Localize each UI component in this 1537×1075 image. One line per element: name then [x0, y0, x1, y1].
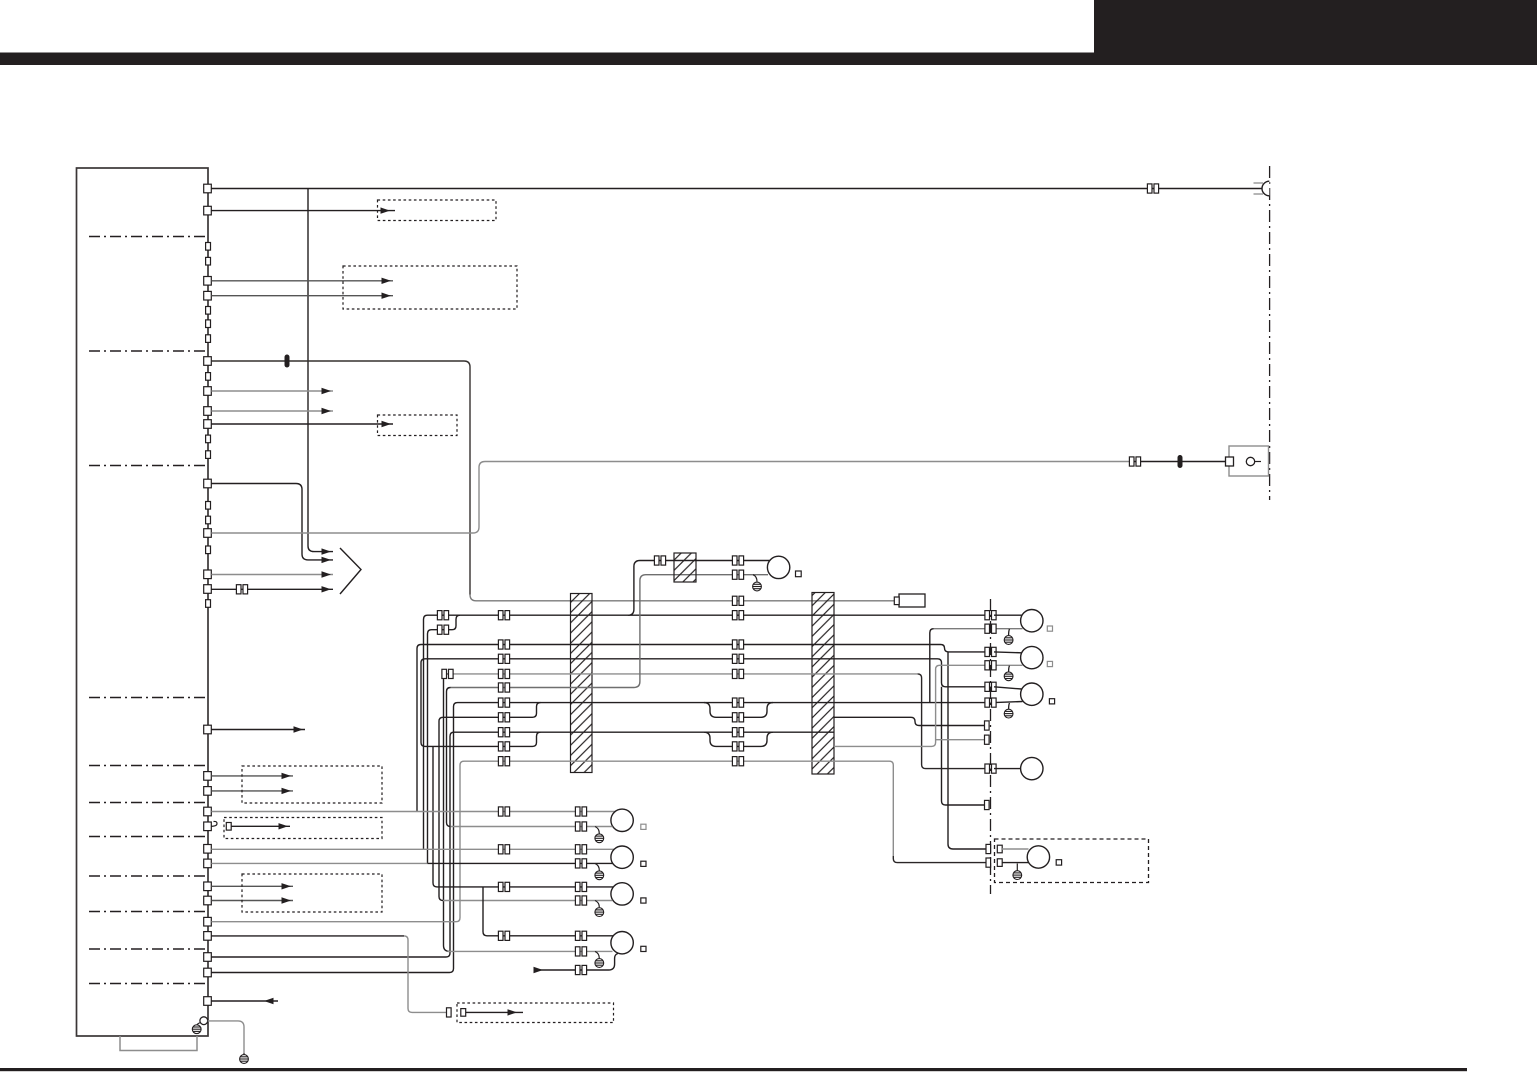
L2 ground stem — [595, 863, 599, 870]
licence lamp circle — [1027, 846, 1049, 868]
lamp3 lower wire — [994, 702, 1023, 703]
lamp4 circle — [1021, 757, 1043, 779]
pin 21 — [204, 896, 212, 905]
wire row F to headlamp low — [451, 575, 769, 688]
L4 ground stem — [595, 951, 599, 958]
L1 ground symbol — [595, 834, 604, 843]
inline connector on lighter feed — [1129, 457, 1140, 466]
wire pin6 — [211, 390, 333, 392]
wire from box5 pin — [231, 825, 290, 827]
label box 4 — [242, 766, 382, 803]
connector pair L2 bottom x581 — [575, 859, 586, 868]
cigarette lighter box — [1229, 446, 1269, 476]
connector pair row K x738 — [732, 757, 743, 766]
wire row J mid segment — [704, 732, 773, 746]
arrow pin8 wire — [382, 421, 392, 427]
connector pair row H x738 — [732, 713, 743, 722]
lamp3 ground stem — [1008, 703, 1011, 709]
pin 4 — [204, 291, 212, 300]
lamp1 connector pair — [985, 611, 996, 620]
pin 13 — [204, 725, 212, 734]
pin stub a1 — [206, 243, 211, 251]
firewall grommet bar 1 — [571, 594, 593, 773]
connector pair L4 top x581 — [575, 931, 586, 940]
lamp2 upper wire — [994, 651, 1022, 654]
connector pair L3 top x504 — [498, 882, 509, 891]
pin 6 — [204, 387, 212, 396]
header title block — [1094, 0, 1537, 53]
pin stub b2 — [206, 516, 211, 524]
lamp4 connector pair — [985, 764, 996, 773]
wire row I — [454, 731, 834, 733]
body ground symbol — [192, 1025, 201, 1034]
pin 10 — [204, 529, 212, 538]
connector divider C6 — [89, 802, 208, 804]
licence lamp lower pin at line — [986, 858, 991, 867]
connector pair L1 bottom x581 — [575, 822, 586, 831]
headlamp ground symbol — [753, 582, 762, 591]
connector divider C1 — [89, 236, 208, 238]
branch row G up to stop lamp ground row — [930, 629, 934, 703]
wire pin20 — [211, 885, 293, 887]
arrow on turn feed — [534, 967, 544, 973]
wire row J right segment to lamp2 ground row — [834, 665, 991, 746]
lighter element tick — [1255, 461, 1261, 463]
label box 3 — [378, 415, 458, 436]
label box 6 — [242, 874, 382, 912]
L4 ground symbol — [595, 959, 604, 968]
connector pair row I x504 — [498, 728, 509, 737]
splice on lighter feed — [1178, 455, 1183, 468]
row D lower branch to marker pin — [942, 687, 986, 805]
box7 pin inside — [461, 1009, 466, 1017]
junction block J/B — [77, 168, 209, 1036]
wire pin3 — [211, 280, 393, 282]
L2 square tag — [641, 861, 646, 866]
relay box pin — [894, 597, 899, 605]
L4 square tag — [641, 946, 646, 951]
lamp2 connector pair lower — [985, 661, 996, 670]
wire pin21 — [211, 900, 293, 902]
pin stub a6 — [206, 373, 211, 381]
bundle vertical v11 — [211, 703, 457, 973]
pin 25 — [204, 968, 212, 977]
turn feed arrow wire to L4 — [534, 954, 618, 971]
pin 16 — [204, 807, 212, 816]
connector pair headlamp x738 top — [732, 556, 743, 565]
connector pair row C x504 — [498, 640, 509, 649]
connector pair row A x504 — [498, 611, 509, 620]
lamp2 ground stem — [1008, 666, 1011, 672]
pin stub a8 — [206, 451, 211, 459]
connector pair row K x504 — [498, 757, 509, 766]
connector pair L4 top x504 — [498, 931, 509, 940]
connector divider C2 — [89, 350, 208, 352]
bottom rule — [0, 1068, 1467, 1071]
wire row C — [421, 645, 991, 652]
lamp2 lower wire — [994, 664, 1023, 666]
connector pair L1 top x581 — [575, 807, 586, 816]
lamp L4 circle — [611, 932, 633, 954]
lamp2 connector pair — [985, 647, 996, 656]
arrow pin2 wire — [381, 207, 391, 213]
connector divider C5 — [89, 765, 208, 767]
wire row E — [448, 673, 918, 675]
lamp3 square tag — [1049, 699, 1054, 704]
lamp L1 lower wire — [451, 826, 613, 828]
connector divider C3 — [89, 465, 208, 467]
connector pair L4 bottom x581 — [575, 947, 586, 956]
connector pair L2 top x581 — [575, 845, 586, 854]
pin 14 — [204, 772, 212, 781]
marker half pin 2 — [985, 735, 990, 744]
wire row H right jog to pin — [834, 717, 985, 725]
headlamp ground stem — [753, 575, 757, 582]
arrow pin14 wire — [282, 773, 292, 779]
licence lamp lower pin inside — [997, 859, 1002, 867]
connector divider C8 — [89, 875, 208, 877]
lamp L1 circle — [611, 809, 633, 831]
arrow box5 wire — [279, 823, 289, 829]
pin 11 — [204, 570, 212, 579]
pin stub b3 — [206, 546, 211, 554]
arrow pin6 wire — [322, 388, 332, 394]
rear harness dash-dot line — [990, 599, 992, 894]
pin stub b1 — [206, 502, 211, 510]
connector pair row C x738 — [732, 640, 743, 649]
bundle vertical v2 — [417, 645, 421, 812]
pin 15 — [204, 787, 212, 796]
wire row D — [425, 659, 991, 687]
lamp3 circle — [1021, 683, 1043, 705]
licence lamp upper pin inside — [997, 845, 1002, 853]
horn stub lower — [1254, 193, 1264, 195]
lamp1 feed wire — [994, 614, 1022, 616]
arrow pin20 wire — [282, 883, 292, 889]
bundle vertical v13 — [444, 674, 450, 952]
lamp1 ground stem — [1008, 629, 1011, 635]
arrow on branch wire — [322, 548, 332, 554]
wire pin10 to cigarette lighter feed — [211, 462, 1131, 534]
lamp3 connector pair lower — [985, 698, 996, 707]
lamp1 square tag — [1047, 626, 1052, 631]
connector pair row G x504 — [498, 698, 509, 707]
label box 5 — [224, 818, 382, 839]
wire branch to chevron from pin1 — [308, 189, 333, 552]
pin 17 — [204, 822, 212, 831]
connector pair headlamp feed — [654, 556, 665, 565]
marker half pin 3 — [985, 800, 990, 809]
pin stub a5 — [206, 335, 211, 343]
wire pin11 to chevron — [211, 574, 333, 576]
connector pair headlamp x738 bottom — [732, 570, 743, 579]
horn stub upper — [1254, 182, 1264, 184]
tail branch vertical to rear lamp — [948, 652, 986, 849]
tail feed wire pin23 to licence box — [211, 935, 404, 937]
lamp2 ground symbol — [1004, 672, 1013, 681]
wire row G — [458, 702, 991, 704]
L2 ground symbol — [595, 871, 604, 880]
lamp L2 circle — [611, 846, 633, 868]
wire pin5 to relay box via firewall — [211, 361, 470, 595]
arrow pin7 wire — [322, 408, 332, 414]
lamp4 wire — [994, 768, 1021, 770]
connector pair L2 top x504 — [498, 845, 509, 854]
wire pin8 — [211, 423, 393, 425]
bundle vertical v7 — [211, 732, 454, 957]
connector pair row E x504 — [498, 669, 509, 678]
bundle vertical v5 — [433, 746, 437, 887]
connector pair row B x443 — [437, 625, 448, 634]
wire pin13 — [211, 729, 305, 731]
firewall grommet bar 2 — [812, 593, 834, 775]
connector divider C4 — [89, 697, 208, 699]
branch marker pin from row J vertical — [936, 739, 985, 741]
lamp L3 lower wire — [443, 900, 613, 902]
lamp L2 lower wire — [211, 862, 427, 864]
licence lamp lower wire — [1002, 862, 1029, 864]
headlamp high feed wire — [628, 561, 770, 616]
lamp L3 circle — [611, 883, 633, 905]
wire row A tail feed — [428, 614, 991, 616]
connector divider C10 — [89, 948, 208, 950]
chassis ground stem — [243, 1053, 245, 1055]
pin stub b4 — [206, 600, 211, 608]
pin 9 — [204, 479, 212, 488]
connector pair row H x504 — [498, 713, 509, 722]
connector pair L3 top x581 — [575, 882, 586, 891]
pin 12 — [204, 585, 212, 594]
wire row H mid segment — [704, 703, 773, 718]
arrow pin15 wire — [282, 788, 292, 794]
lighter element circle — [1246, 457, 1254, 465]
bundle vertical v3 — [424, 615, 428, 849]
lamp3 ground symbol — [1004, 709, 1013, 718]
body centreline dash-dot (top right) — [1269, 166, 1271, 500]
arrow pin9 wire — [322, 557, 332, 563]
L3 square tag — [641, 898, 646, 903]
bundle vertical v9 — [421, 659, 425, 747]
wire row B — [432, 615, 461, 630]
connector pair L3 bottom x581 — [575, 896, 586, 905]
splice on pin5 wire — [285, 355, 290, 368]
connector pair row A x738 — [732, 611, 743, 620]
lamp1 lower wire — [994, 628, 1023, 630]
inline connector on bulb feed — [1147, 184, 1158, 193]
lamp2 circle — [1021, 646, 1043, 668]
connector divider C7 — [89, 836, 208, 838]
connector pair row G x738 — [732, 698, 743, 707]
licence label box — [995, 839, 1149, 883]
chassis ground symbol — [240, 1055, 249, 1064]
lamp row L4 top — [487, 935, 618, 937]
headlamp square tag — [796, 571, 802, 577]
bundle vertical v10 — [439, 717, 443, 900]
L1 square tag — [641, 824, 646, 829]
pin stub a2 — [206, 257, 211, 265]
turn lamp row L2 top — [211, 848, 618, 850]
connector pair row J x504 — [498, 742, 509, 751]
wire pin14 — [211, 775, 293, 777]
label box 7 — [457, 1003, 614, 1023]
turn lamp row L1 top — [211, 811, 618, 813]
connector pair row D x504 — [498, 654, 509, 663]
box7 pin outside — [447, 1008, 452, 1017]
connector pair row feed x738 — [732, 596, 743, 605]
wire pin1 to headlamp bulb — [211, 188, 1261, 190]
arrow pin26 wire (incoming) — [264, 998, 274, 1004]
pin 7 — [204, 407, 212, 416]
pin 26 — [204, 997, 212, 1006]
chevron off-page connector — [340, 548, 361, 594]
connector pair row I x738 — [732, 728, 743, 737]
wire screw to chassis ground — [208, 1021, 244, 1053]
licence lamp upper pin at line — [986, 844, 991, 853]
arrow pin4 wire — [382, 293, 392, 299]
lamp row L3 top — [437, 886, 618, 888]
wire pin26 incoming — [211, 1000, 278, 1002]
pin 18 — [204, 845, 212, 854]
arrow pin21 wire — [282, 897, 292, 903]
connector pair row F x504 — [498, 683, 509, 692]
L3 ground stem — [595, 901, 599, 908]
lighter pin — [1226, 457, 1234, 466]
pin inside box 5 — [226, 823, 231, 831]
wire row J left segment — [425, 732, 541, 746]
arrow pin13 wire — [294, 726, 304, 732]
licence ground symbol — [1013, 871, 1022, 880]
bundle vertical v4 — [428, 630, 432, 864]
wire pin7 — [211, 410, 333, 412]
wire row K licence feed — [464, 761, 893, 856]
header rule bar — [0, 53, 1537, 66]
relay box — [899, 594, 925, 607]
wire pin4 — [211, 295, 393, 297]
lamp L4 lower wire — [448, 950, 613, 952]
arrow box7 wire — [508, 1009, 518, 1015]
connector divider C9 — [89, 911, 208, 913]
wire row H left segment — [443, 703, 541, 718]
pin stub a3 — [206, 307, 211, 315]
body ground screw circle — [200, 1017, 208, 1025]
pin 22 — [204, 917, 212, 926]
wire pin15 — [211, 790, 293, 792]
pin 3 — [204, 277, 212, 286]
arrow pin12 wire — [322, 586, 332, 592]
licence ground stem — [1016, 864, 1018, 871]
connector pair row D x738 — [732, 654, 743, 663]
pin 19 — [204, 859, 212, 868]
pin17 hook — [211, 821, 217, 826]
pin 24 — [204, 953, 212, 962]
body ground hook — [197, 1023, 201, 1026]
lamp1 ground symbol — [1004, 636, 1013, 645]
lamp3 connector pair — [985, 682, 996, 691]
inline connector on pin12 wire — [236, 585, 247, 594]
L1 ground stem — [595, 827, 599, 834]
branch L3 top to L4 top — [483, 887, 487, 936]
label box 1 — [378, 200, 497, 221]
lamp1 connector pair lower — [985, 624, 996, 633]
pin stub a7 — [206, 435, 211, 443]
arrow pin3 wire — [382, 278, 392, 284]
bundle vertical v14 gray — [211, 761, 464, 922]
label box 2 — [343, 266, 517, 309]
pin stub a4 — [206, 320, 211, 328]
wire pin12 to chevron — [211, 588, 333, 590]
pin 20 — [204, 882, 212, 891]
connector pair row A x443 — [437, 611, 448, 620]
connector pair turn feed x581 — [575, 965, 586, 974]
pin 8 — [204, 420, 212, 429]
connector pair row J x738 — [732, 742, 743, 751]
lamp2 square tag — [1047, 661, 1052, 666]
box7 wire — [466, 1011, 524, 1013]
bundle vertical v6 — [447, 688, 451, 827]
horn dome symbol — [1262, 181, 1269, 196]
junction block bottom tab — [120, 1036, 197, 1051]
licence lamp upper wire — [1002, 848, 1029, 850]
lamp3 upper wire — [994, 687, 1022, 689]
L3 ground symbol — [595, 908, 604, 917]
wire pin9 to chevron — [211, 484, 333, 560]
pin 23 — [204, 932, 212, 941]
headlamp bulb circle — [767, 556, 789, 578]
licence square tag — [1056, 860, 1061, 865]
grommet small box — [674, 553, 696, 582]
marker half pin 1 — [985, 721, 990, 730]
wire pin2 — [211, 210, 395, 212]
lamp1 circle — [1021, 610, 1043, 632]
pin 5 — [204, 357, 212, 366]
pin 2 — [204, 206, 212, 215]
connector pair L1 top x504 — [498, 807, 509, 816]
arrow pin11 wire — [322, 571, 332, 577]
connector pair row E x738 — [732, 669, 743, 678]
pin 1 (battery feed) — [204, 184, 212, 193]
connector pair row E x443 — [442, 669, 453, 678]
connector divider C11 — [89, 983, 208, 985]
